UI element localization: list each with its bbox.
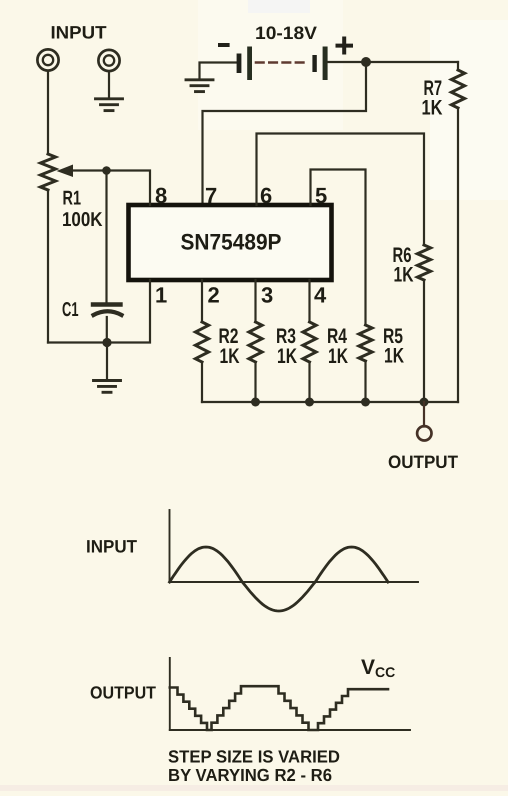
wire bbox=[364, 361, 366, 402]
wire pin 8 stub bbox=[106, 171, 150, 206]
svg-text:BY VARYING R2 - R6: BY VARYING R2 - R6 bbox=[168, 765, 332, 785]
svg-text:C1: C1 bbox=[62, 299, 79, 321]
svg-text:1K: 1K bbox=[422, 97, 443, 120]
wire pin 1 net bbox=[107, 280, 150, 343]
svg-text:2: 2 bbox=[208, 283, 220, 308]
wire bbox=[457, 108, 459, 402]
svg-text:R1: R1 bbox=[63, 188, 82, 210]
wire bbox=[423, 402, 425, 427]
plus sign bbox=[338, 39, 352, 53]
ground bbox=[96, 99, 123, 111]
wire pin 6 net bbox=[257, 134, 425, 246]
ground bbox=[94, 381, 121, 393]
svg-text:3: 3 bbox=[261, 283, 273, 308]
ground (battery negative) bbox=[186, 80, 213, 92]
svg-text:8: 8 bbox=[155, 183, 167, 208]
svg-text:SN75489P: SN75489P bbox=[181, 230, 282, 255]
svg-text:INPUT: INPUT bbox=[86, 537, 137, 557]
svg-text:1K: 1K bbox=[394, 264, 414, 287]
wire bbox=[201, 362, 203, 402]
battery internal dashes bbox=[256, 61, 309, 64]
junction bbox=[305, 398, 314, 407]
wire bbox=[47, 71, 49, 154]
svg-text:OUTPUT: OUTPUT bbox=[90, 683, 156, 703]
svg-text:10-18V: 10-18V bbox=[255, 23, 317, 43]
svg-text:1: 1 bbox=[155, 283, 167, 308]
output terminal bbox=[417, 426, 431, 440]
op-amp/IC U1 SN75489P bbox=[129, 205, 332, 280]
capacitor C1 bbox=[93, 305, 122, 316]
wire bbox=[47, 190, 49, 343]
resistor R2 bbox=[195, 322, 208, 362]
wire bbox=[308, 362, 310, 402]
svg-text:CC: CC bbox=[375, 664, 395, 680]
svg-text:6: 6 bbox=[260, 183, 272, 208]
svg-text:5: 5 bbox=[315, 183, 327, 208]
input sine wave bbox=[170, 547, 389, 611]
wire bbox=[254, 362, 256, 402]
minus sign bbox=[218, 43, 230, 47]
wire (battery + to pin 7) bbox=[203, 62, 367, 205]
junction (battery +) bbox=[361, 57, 371, 67]
wire bbox=[423, 280, 425, 402]
junction bbox=[420, 398, 429, 407]
wire bbox=[106, 317, 108, 343]
wire bbox=[48, 341, 107, 343]
resistor R5 bbox=[359, 325, 372, 361]
resistor R7 bbox=[451, 70, 464, 108]
junction bbox=[361, 398, 370, 407]
input jack J1 bbox=[37, 49, 58, 70]
resistor R1 (potentiometer) bbox=[41, 154, 56, 190]
wire (bottom bus) bbox=[202, 401, 458, 403]
output staircase wave bbox=[170, 686, 388, 730]
resistor R4 bbox=[303, 322, 316, 362]
wire bbox=[328, 61, 458, 63]
svg-text:INPUT: INPUT bbox=[51, 23, 107, 43]
wire bbox=[105, 171, 107, 303]
junction bbox=[251, 398, 260, 407]
input jack J2 bbox=[98, 50, 119, 71]
svg-text:OUTPUT: OUTPUT bbox=[388, 452, 458, 472]
wire bbox=[457, 62, 459, 70]
wire pin 5 net bbox=[311, 170, 366, 326]
junction (C1/ground node) bbox=[102, 338, 111, 347]
svg-text:STEP SIZE IS VARIED: STEP SIZE IS VARIED bbox=[168, 747, 340, 767]
svg-text:1K: 1K bbox=[384, 345, 404, 368]
wire bbox=[108, 72, 110, 97]
svg-text:1K: 1K bbox=[328, 345, 348, 368]
wiper arrow of R1 bbox=[57, 165, 107, 178]
junction (R1 wiper node) bbox=[102, 166, 111, 175]
resistor R6 bbox=[417, 245, 430, 280]
wire bbox=[106, 343, 108, 380]
wire pin 2 stub bbox=[201, 280, 203, 322]
wire bbox=[200, 63, 238, 79]
resistor R3 bbox=[249, 322, 262, 362]
svg-text:100K: 100K bbox=[62, 209, 103, 231]
wire pin 3 stub bbox=[254, 280, 256, 322]
svg-text:4: 4 bbox=[314, 283, 327, 308]
output waveform axes bbox=[170, 658, 410, 730]
svg-text:1K: 1K bbox=[277, 345, 297, 368]
battery B1 plates bbox=[237, 47, 328, 81]
svg-text:1K: 1K bbox=[220, 345, 240, 368]
input waveform axes bbox=[170, 510, 419, 582]
svg-text:V: V bbox=[361, 656, 375, 679]
wire pin 4 stub bbox=[308, 280, 310, 322]
svg-text:7: 7 bbox=[205, 183, 217, 208]
